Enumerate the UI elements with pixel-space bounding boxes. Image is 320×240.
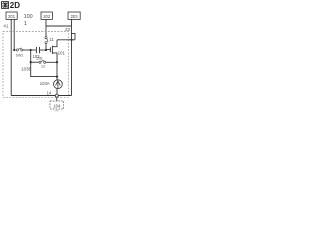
wire: scan line from 202 down to switch 11 — [45, 19, 47, 36]
svg-text:12B: 12B — [36, 56, 43, 60]
svg-text:14: 14 — [47, 91, 52, 96]
svg-text:103A: 103A — [40, 81, 50, 86]
node: dot on source rail at branch — [56, 75, 58, 77]
terminal 14 (open circle) — [55, 94, 58, 97]
wire: source rail into current source — [56, 62, 58, 80]
svg-text:2D: 2D — [10, 1, 20, 10]
svg-text:1: 1 — [24, 21, 27, 27]
driver box 203 — [68, 12, 80, 19]
wire 23: horizontal line joining 202 wire and 203 wire — [46, 25, 72, 27]
wire switch 103B to source rail — [46, 61, 57, 63]
wire: drain branch to power line — [57, 39, 75, 41]
svg-text:11: 11 — [49, 37, 54, 42]
node: gate node dot — [45, 49, 47, 51]
transistor 101 (drive MOSFET) — [46, 40, 57, 62]
wire: power line from 203 down right side — [71, 19, 73, 95]
svg-text:101: 101 — [58, 51, 66, 56]
figure title 図2D — [2, 2, 9, 9]
switch 103B — [39, 60, 46, 63]
ground stub below 104 — [55, 109, 59, 111]
node: dot on source rail at switch — [56, 61, 58, 63]
wire: branch from capacitor node down — [31, 50, 57, 77]
wire: data line from 201 (left pin) down to bottom rail — [10, 19, 12, 95]
node: junction dot at capacitor-left branch — [30, 49, 32, 51]
svg-text:201: 201 — [8, 14, 16, 19]
driver box 202 — [41, 12, 52, 19]
capacitor 102 — [36, 47, 39, 53]
wire terminal to EL element — [56, 97, 58, 101]
wire from SW1 to capacitor — [23, 49, 36, 51]
switch 11 (vertical, from scan line) — [45, 37, 48, 44]
wire: jog on power line — [72, 33, 76, 39]
wire: second line from 201 (right pin) down to switch node — [13, 19, 15, 50]
svg-text:103B: 103B — [21, 67, 31, 72]
svg-text:13: 13 — [41, 65, 45, 69]
current source 103A — [54, 80, 63, 89]
node: dot at switch 103B input — [30, 61, 32, 63]
svg-text:SW1: SW1 — [16, 53, 24, 57]
svg-text:41: 41 — [3, 24, 8, 29]
wire switch 11 to gate node — [45, 44, 47, 49]
svg-text:203: 203 — [71, 14, 79, 19]
switch SW1 (sampling switch) — [15, 48, 23, 51]
pixel boundary dashed box (100) — [3, 32, 69, 98]
svg-text:202: 202 — [43, 14, 51, 19]
wire current source to terminal 14 — [56, 88, 58, 94]
svg-text:104: 104 — [53, 103, 61, 108]
driver box 201 — [6, 12, 17, 19]
wire capacitor to gate node — [40, 49, 47, 51]
node: junction dot on data line at y=50 — [13, 49, 15, 51]
svg-text:100: 100 — [24, 14, 33, 20]
node: dot on power line — [70, 39, 72, 41]
EL element box 104 (dashed) — [50, 101, 64, 109]
wire to switch 103B — [31, 61, 39, 63]
bottom rail wire — [11, 95, 71, 97]
